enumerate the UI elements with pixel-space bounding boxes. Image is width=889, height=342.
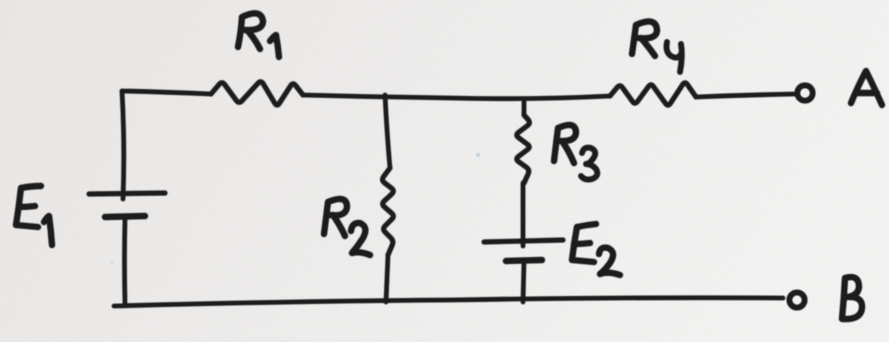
wire: top right segment to terminal A <box>696 94 795 97</box>
wire: bottom horizontal to terminal B <box>114 298 783 306</box>
label node A <box>851 71 882 105</box>
node B terminal circle <box>789 292 804 307</box>
label R2 letter R <box>324 199 347 236</box>
label E1 letter E <box>16 186 41 227</box>
label E2 subscript 2 <box>599 248 620 275</box>
wire: top middle segment <box>303 95 610 99</box>
wire: R2 branch upper stub <box>385 95 390 168</box>
label R4 letter R <box>632 21 657 56</box>
resistor R4 <box>610 83 696 105</box>
wire: E2 stub down to bottom wire <box>523 261 524 302</box>
resistor R2 <box>383 168 394 255</box>
battery E2 long plate <box>484 240 563 242</box>
battery E1 short plate <box>105 216 145 217</box>
battery E2 short plate <box>506 260 542 261</box>
label node B <box>842 277 862 319</box>
wire: E1 negative stub down to bottom wire <box>122 218 127 304</box>
label R3 letter R <box>554 125 576 163</box>
resistor R3 <box>517 115 530 183</box>
wire: left vertical from top corner to battery <box>122 91 124 199</box>
battery E1 long plate <box>89 193 165 194</box>
wire: R3 branch upper stub <box>522 99 527 115</box>
node A terminal circle <box>797 85 812 100</box>
label R1 letter R <box>238 13 263 49</box>
wire: R2 branch lower stub <box>386 255 388 302</box>
label E2 letter E <box>572 224 596 262</box>
wire: R3 to E2 battery <box>521 183 526 246</box>
label R4 subscript 4 <box>667 42 682 72</box>
label E1 subscript 1 <box>44 216 52 245</box>
resistor R1 <box>211 82 303 105</box>
tiny blue speck artifact <box>476 153 480 157</box>
label R3 subscript 3 <box>581 148 597 180</box>
label R1 subscript 1 <box>270 35 279 57</box>
label R2 subscript 2 <box>351 223 370 255</box>
wire: top-left horizontal segment <box>122 91 211 94</box>
